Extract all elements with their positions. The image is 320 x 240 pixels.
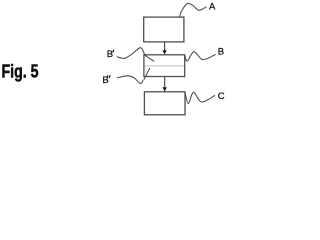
pointer line B' into upper compartment — [144, 55, 154, 61]
svg-text:B: B — [218, 47, 224, 58]
box C (bottom process block) — [144, 92, 185, 115]
svg-text:C: C — [218, 91, 225, 102]
pointer line B'' into lower compartment — [144, 68, 150, 80]
box B (middle block, two compartments) — [144, 55, 185, 77]
box A (top process block) — [144, 17, 184, 42]
leader squiggle from label B'' — [117, 76, 143, 84]
divider line in box B — [144, 65, 184, 67]
svg-text:Fig. 5: Fig. 5 — [2, 61, 39, 81]
leader squiggle from label B' — [117, 48, 145, 59]
wire arrow from box A to box B — [164, 42, 166, 51]
svg-text:A: A — [209, 1, 216, 12]
wire arrow from box B to box C — [164, 77, 166, 88]
leader squiggle to label C — [185, 92, 215, 104]
svg-text:B: B — [107, 49, 113, 60]
leader squiggle to label B — [185, 52, 216, 61]
leader squiggle to label A — [180, 3, 207, 17]
